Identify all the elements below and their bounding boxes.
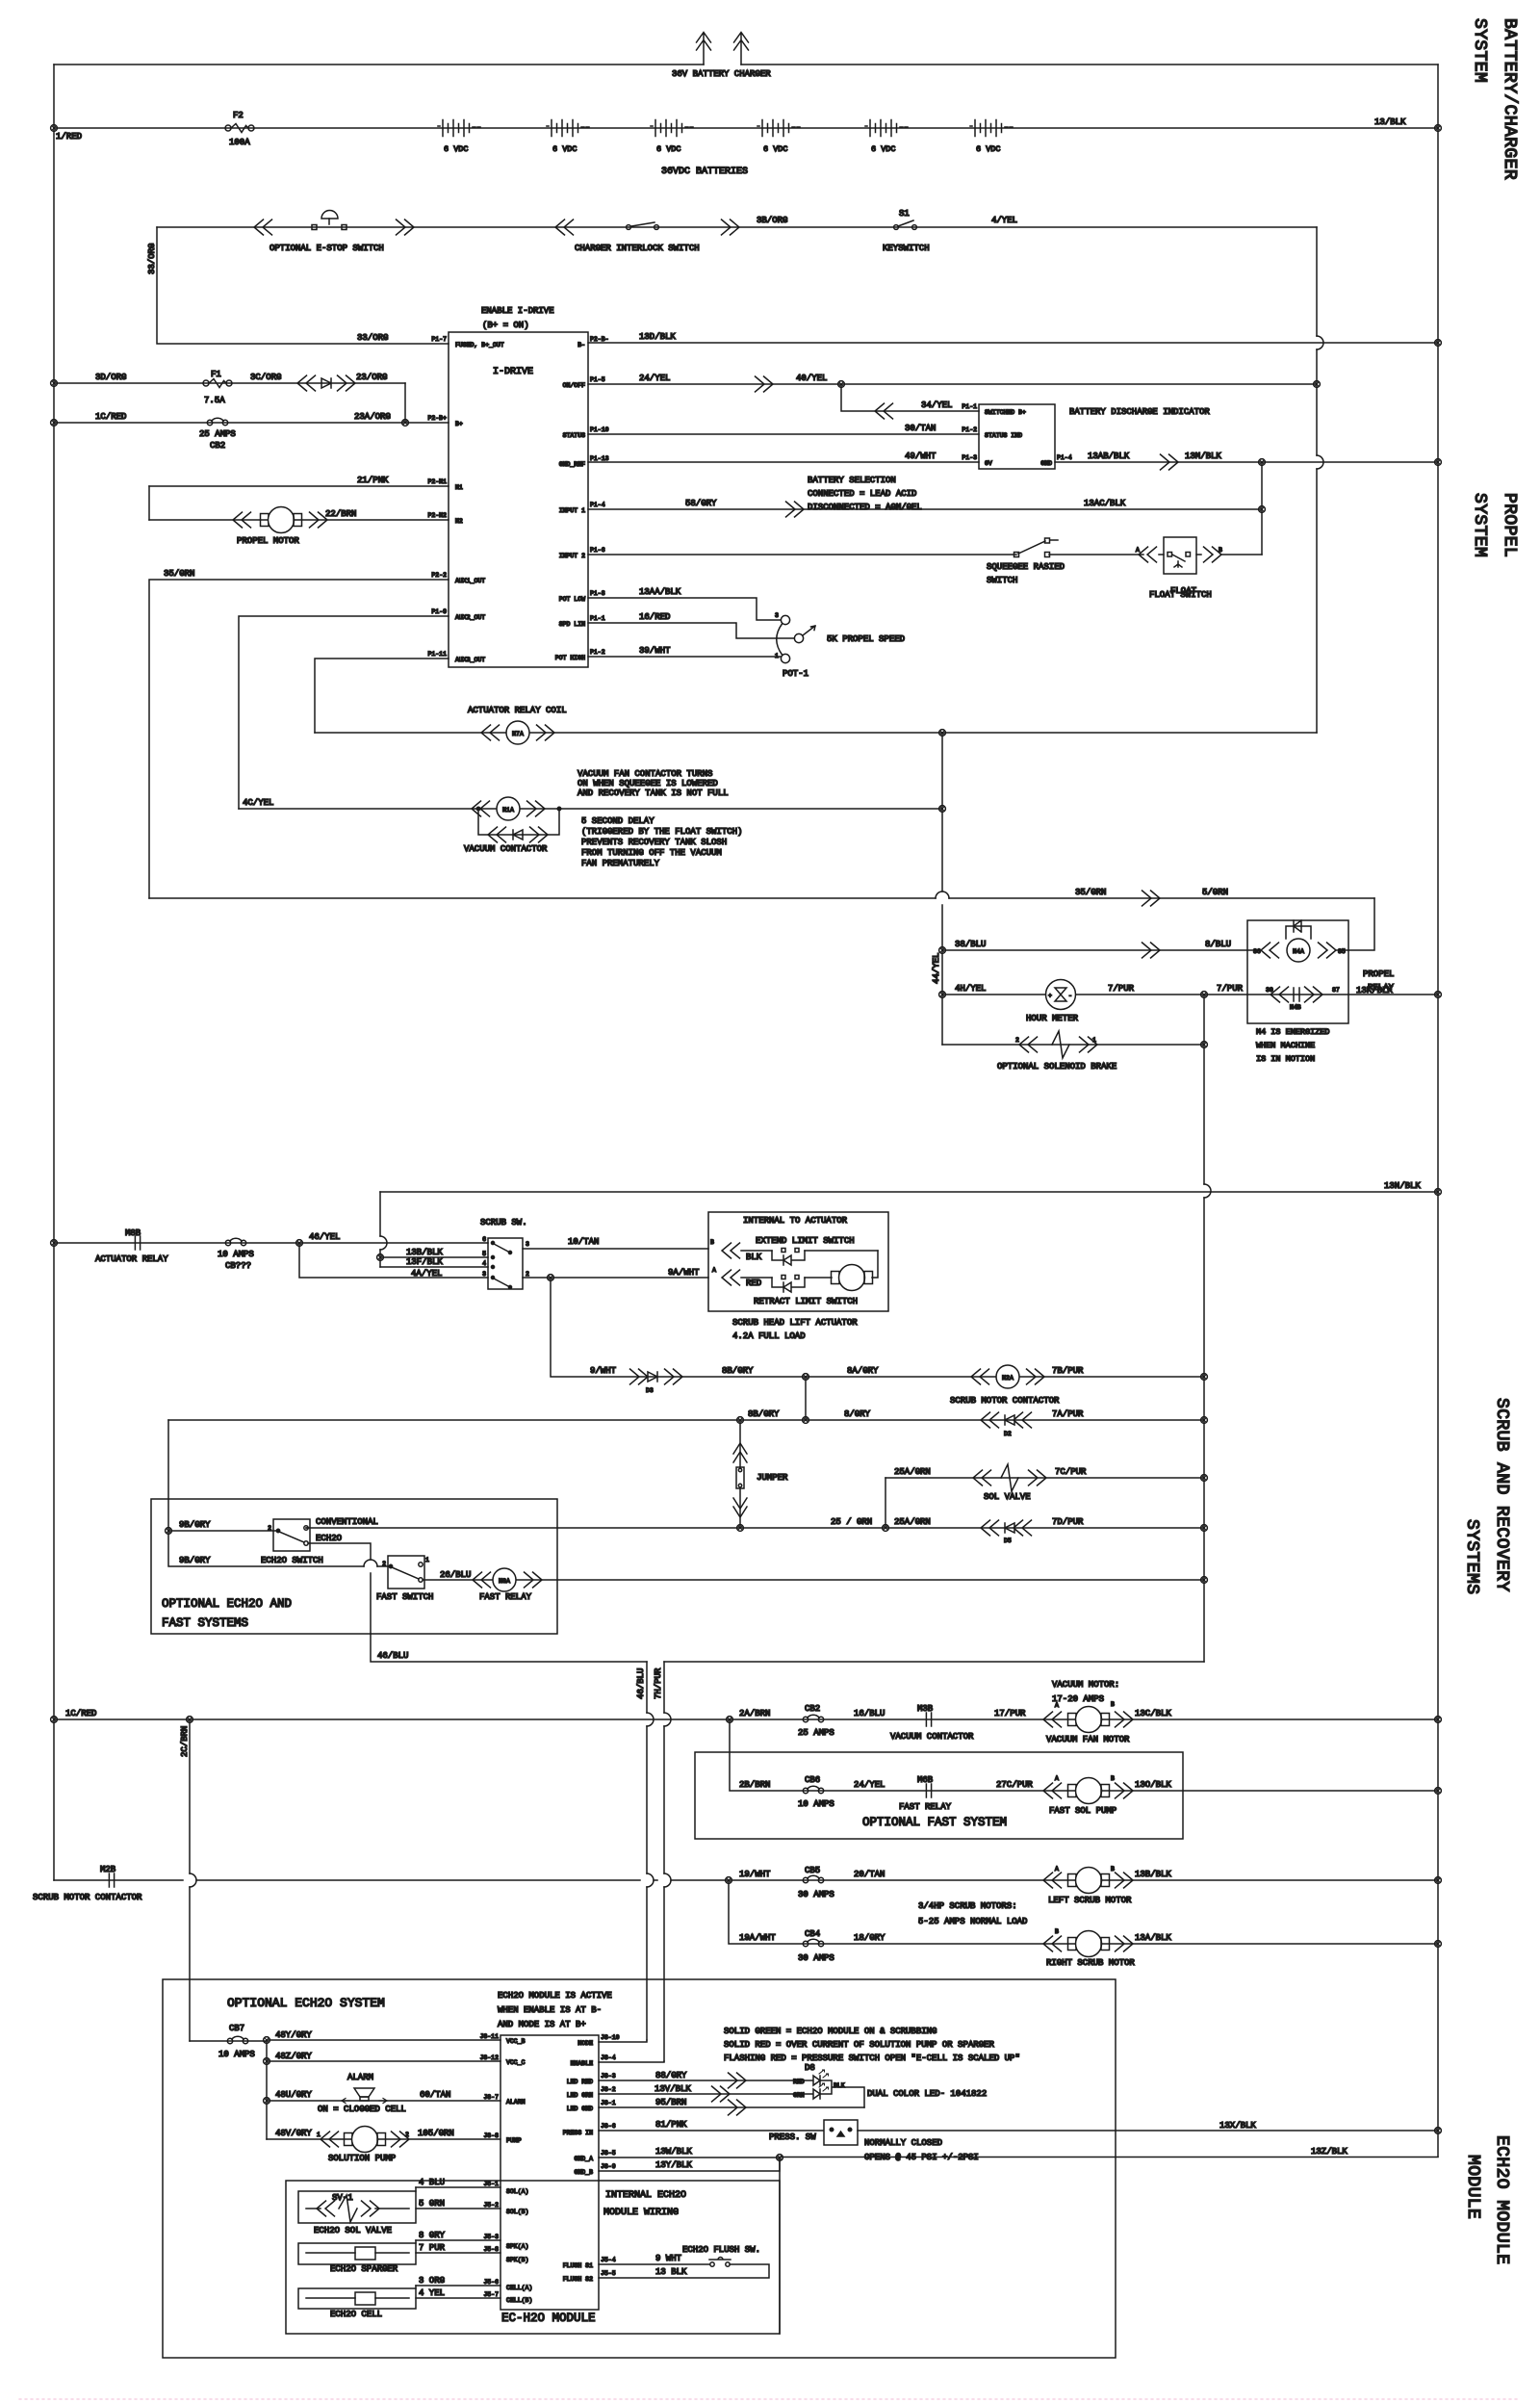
- svg-text:ON/OFF: ON/OFF: [563, 382, 586, 389]
- svg-text:LED GND: LED GND: [567, 2106, 593, 2112]
- svg-text:A: A: [1055, 1702, 1059, 1709]
- junction dot M1A left: [476, 807, 480, 811]
- wire ECH2O contact down to fast switch feed: [308, 1543, 371, 1634]
- svg-text:3: 3: [482, 1271, 486, 1278]
- hop keyswitch vertical over 13AB/BLK: [1317, 455, 1323, 469]
- svg-text:58/GRY: 58/GRY: [685, 499, 717, 508]
- svg-text:23/ORG: 23/ORG: [356, 373, 387, 382]
- svg-text:13AC/BLK: 13AC/BLK: [1084, 499, 1126, 508]
- svg-text:FLUSH S2: FLUSH S2: [563, 2276, 593, 2283]
- svg-text:13F/BLK: 13F/BLK: [406, 1257, 443, 1267]
- svg-text:AND RECOVERY TANK IS NOT FULL: AND RECOVERY TANK IS NOT FULL: [577, 788, 729, 798]
- svg-text:13/BLK: 13/BLK: [1374, 117, 1406, 127]
- svg-text:J8-2: J8-2: [601, 2086, 616, 2093]
- svg-text:33/ORG: 33/ORG: [357, 333, 388, 343]
- wire battery row: [54, 127, 1438, 129]
- svg-text:VACUUM FAN MOTOR: VACUUM FAN MOTOR: [1046, 1735, 1130, 1744]
- connector >> 35/GRN: [1142, 891, 1161, 906]
- sol valve zigzag: [1001, 1464, 1018, 1491]
- svg-text:J8-6: J8-6: [601, 2123, 616, 2130]
- svg-text:AUX2_OUT: AUX2_OUT: [455, 614, 485, 621]
- svg-text:SCRUB HEAD LIFT ACTUATOR: SCRUB HEAD LIFT ACTUATOR: [732, 1318, 858, 1328]
- pink margin dotted line: [19, 2398, 1521, 2400]
- connector << fast pump: [1043, 1783, 1062, 1798]
- svg-text:6 VDC: 6 VDC: [871, 144, 896, 154]
- box OPTIONAL ECH2O AND FAST SYSTEMS: [151, 1499, 557, 1634]
- wire 4H/YEL hour meter row: [942, 994, 1438, 995]
- svg-text:P1-2: P1-2: [962, 426, 977, 433]
- svg-text:ON WHEN SQUEEGEE IS LOWERED: ON WHEN SQUEEGEE IS LOWERED: [577, 779, 718, 788]
- svg-text:STATUS: STATUS: [563, 432, 586, 439]
- svg-text:CELL(A): CELL(A): [506, 2285, 532, 2291]
- node 19/WHT junction: [726, 1877, 732, 1884]
- svg-text:30 AMPS: 30 AMPS: [798, 1953, 834, 1963]
- svg-text:P1-11: P1-11: [427, 651, 447, 658]
- motor SOLUTION PUMP: [345, 2127, 386, 2153]
- wire GND_A row 13W/BLK: [599, 2157, 780, 2158]
- wire AUX3 down to M7A: [315, 659, 449, 733]
- svg-text:KEYSWITCH: KEYSWITCH: [883, 244, 930, 253]
- svg-text:5/GRN: 5/GRN: [1202, 888, 1228, 897]
- node 13N right border: [1435, 1189, 1442, 1196]
- svg-text:4 YEL: 4 YEL: [419, 2288, 445, 2298]
- svg-text:7B/PUR: 7B/PUR: [1052, 1366, 1084, 1376]
- svg-text:OPTIONAL E-STOP SWITCH: OPTIONAL E-STOP SWITCH: [269, 244, 384, 253]
- wire 35/GRN bottom run: [149, 897, 1374, 899]
- hop 35/GRN over 44/YEL: [936, 891, 949, 898]
- relay coil M4A: [1287, 939, 1310, 962]
- svg-text:D5: D5: [1004, 1537, 1012, 1544]
- hop 7H/PUR over M2B row: [664, 1873, 671, 1887]
- node alarm row: [264, 2098, 270, 2105]
- svg-text:60/TAN: 60/TAN: [420, 2090, 450, 2100]
- circuit breaker CB2 vacuum 25 AMPS: [803, 1715, 823, 1721]
- charger arrow 2: [734, 33, 749, 65]
- svg-text:B: B: [1219, 547, 1222, 554]
- svg-text:2A/BRN: 2A/BRN: [739, 1709, 770, 1718]
- svg-text:7C/PUR: 7C/PUR: [1055, 1467, 1087, 1477]
- svg-text:(TRIGGERED BY THE FLOAT SWITCH: (TRIGGERED BY THE FLOAT SWITCH): [581, 827, 742, 837]
- svg-text:J5-4: J5-4: [601, 2257, 616, 2263]
- svg-text:DUAL COLOR LED- 1041822: DUAL COLOR LED- 1041822: [867, 2089, 987, 2099]
- node M8B row left border: [51, 1240, 58, 1247]
- svg-text:13AB/BLK: 13AB/BLK: [1088, 452, 1130, 461]
- wire AUX1 35/GRN left run: [149, 580, 449, 898]
- wire 34/YEL branch: [841, 384, 979, 411]
- node jumper top: [737, 1417, 744, 1424]
- node VCC_C: [264, 2058, 270, 2065]
- svg-text:39/WHT: 39/WHT: [639, 646, 671, 656]
- svg-text:SCRUB MOTOR CONTACTOR: SCRUB MOTOR CONTACTOR: [950, 1396, 1060, 1406]
- svg-text:23A/ORG: 23A/ORG: [354, 412, 391, 422]
- svg-text:SOL(A): SOL(A): [506, 2188, 528, 2195]
- svg-text:35/GRN: 35/GRN: [1075, 888, 1106, 897]
- svg-text:POT HIGH: POT HIGH: [555, 655, 585, 661]
- wire 25A/GRN up branch to sol valve: [885, 1478, 886, 1528]
- svg-text:NORMALLY CLOSED: NORMALLY CLOSED: [864, 2138, 942, 2148]
- svg-text:3C/ORG: 3C/ORG: [250, 373, 281, 382]
- svg-text:MODULE: MODULE: [1463, 2155, 1482, 2219]
- svg-text:M4 IS ENERGIZED: M4 IS ENERGIZED: [1256, 1027, 1330, 1037]
- node press sw right border: [1435, 2128, 1442, 2134]
- wire M1 to M2 left vertical: [148, 486, 150, 520]
- svg-text:40/YEL: 40/YEL: [796, 374, 827, 383]
- contact M3B VACUUM CONTACTOR: [926, 1713, 931, 1726]
- LED common wiring: [820, 2080, 864, 2107]
- svg-text:FUSED, B+_OUT: FUSED, B+_OUT: [455, 342, 504, 349]
- cell element: [306, 2292, 409, 2305]
- connector << 34/YEL: [875, 403, 893, 419]
- node 40/YEL keyswitch vertical: [1314, 381, 1321, 388]
- svg-text:5-25 AMPS NORMAL LOAD: 5-25 AMPS NORMAL LOAD: [918, 1917, 1027, 1926]
- svg-text:8/GRY: 8/GRY: [844, 1409, 871, 1419]
- wire VCC_C row 48Z/GRY: [267, 2060, 500, 2062]
- flyback diode M4A: [1286, 920, 1311, 939]
- svg-text:ECH2O FLUSH SW.: ECH2O FLUSH SW.: [682, 2245, 760, 2255]
- node 2C/BRN branch: [187, 1717, 193, 1723]
- svg-text:13W/BLK: 13W/BLK: [655, 2147, 692, 2157]
- node 40/YEL junction: [838, 381, 845, 388]
- svg-text:ON = CLOGGED CELL: ON = CLOGGED CELL: [318, 2105, 406, 2114]
- svg-text:J5-7: J5-7: [483, 2291, 499, 2298]
- wire 38/BLU row: [942, 949, 1260, 951]
- svg-text:GND_B: GND_B: [574, 2169, 593, 2176]
- svg-text:ECH2O SPARGER: ECH2O SPARGER: [330, 2264, 398, 2274]
- svg-text:SYSTEM: SYSTEM: [1470, 493, 1489, 557]
- connector << diode >> bypass: [488, 827, 506, 842]
- svg-text:1C/RED: 1C/RED: [65, 1709, 96, 1718]
- hop 46/BLU over 1C/RED: [647, 1713, 654, 1726]
- svg-text:ECH2O CELL: ECH2O CELL: [330, 2310, 382, 2319]
- motor RIGHT SCRUB MOTOR: [1068, 1931, 1110, 1957]
- svg-text:JUMPER: JUMPER: [757, 1473, 788, 1483]
- svg-text:SCRUB SW.: SCRUB SW.: [480, 1218, 527, 1227]
- wire 1C/RED row to B+: [54, 422, 449, 424]
- svg-text:FAST SOL PUMP: FAST SOL PUMP: [1049, 1806, 1116, 1816]
- svg-text:INPUT 2: INPUT 2: [559, 553, 585, 559]
- svg-text:13V/BLK: 13V/BLK: [654, 2084, 691, 2094]
- connector << sol valve: [973, 1470, 991, 1486]
- wire 5/GRN down to M4A: [1337, 898, 1374, 950]
- circuit breaker 10 AMPS CB???: [225, 1238, 245, 1245]
- node 13D/BLK right: [1435, 340, 1442, 347]
- node 9A/WHT branch: [548, 1275, 554, 1281]
- node battery row left: [51, 125, 58, 132]
- connector >> 24/YEL: [756, 376, 774, 392]
- hop keyswitch vertical over 13D/BLK: [1317, 336, 1323, 349]
- svg-text:A: A: [712, 1267, 716, 1274]
- connector << actuator A: [722, 1270, 740, 1285]
- relay coil M8A FAST RELAY: [493, 1568, 516, 1591]
- svg-text:81/PNK: 81/PNK: [655, 2120, 687, 2130]
- node 2A/BRN branch: [727, 1717, 733, 1723]
- hop 7/PUR vertical over 13N: [1204, 1184, 1211, 1198]
- hop ground vertical over 46/YEL: [380, 1236, 387, 1250]
- wire cell link: [415, 2286, 417, 2288]
- svg-text:VACUUM FAN CONTACTOR TURNS: VACUUM FAN CONTACTOR TURNS: [577, 769, 712, 779]
- svg-text:ALARM: ALARM: [506, 2099, 526, 2106]
- wire squeegee INPUT2 row: [588, 554, 1016, 556]
- wire 13D/BLK row: [588, 342, 1438, 344]
- connector << M4A: [1261, 943, 1279, 958]
- svg-text:P2-M1: P2-M1: [427, 478, 447, 485]
- svg-text:(B+ = ON): (B+ = ON): [482, 321, 529, 330]
- svg-text:M6B: M6B: [917, 1775, 934, 1785]
- svg-text:25A/GRN: 25A/GRN: [894, 1467, 931, 1477]
- svg-text:7 PUR: 7 PUR: [419, 2243, 446, 2253]
- circuit breaker CB6 10 AMPS: [803, 1786, 823, 1793]
- svg-text:SPD LIM: SPD LIM: [559, 621, 585, 628]
- svg-text:ACTUATOR RELAY COIL: ACTUATOR RELAY COIL: [468, 706, 567, 715]
- svg-text:J8-12: J8-12: [479, 2054, 499, 2061]
- wire sol valve link: [415, 2187, 417, 2191]
- circuit breaker CB5 30 AMPS: [803, 1875, 823, 1882]
- svg-text:48Y/GRY: 48Y/GRY: [275, 2030, 312, 2040]
- svg-text:4 BLU: 4 BLU: [419, 2178, 445, 2187]
- flush switch: [709, 2258, 731, 2267]
- svg-text:J8-11: J8-11: [479, 2033, 499, 2040]
- svg-text:5: 5: [482, 1251, 486, 1257]
- wire M8B actuator relay row 46/YEL: [54, 1242, 488, 1244]
- svg-text:D3: D3: [646, 1387, 654, 1394]
- svg-text:1: 1: [1092, 1037, 1096, 1044]
- wire LED RED row 88/GRY: [599, 2080, 813, 2081]
- connector >> fast pump: [1116, 1783, 1134, 1798]
- solenoid brake zigzag: [1052, 1031, 1069, 1058]
- svg-text:BLK: BLK: [746, 1253, 762, 1262]
- node 38/BLU junction: [939, 947, 946, 954]
- svg-text:OPTIONAL SOLENOID BRAKE: OPTIONAL SOLENOID BRAKE: [997, 1062, 1116, 1072]
- node D5 right: [1201, 1525, 1208, 1532]
- hop 2C/BRN over M2B row: [190, 1873, 196, 1887]
- svg-text:M4B: M4B: [1290, 1004, 1301, 1011]
- svg-text:9A/WHT: 9A/WHT: [668, 1268, 700, 1278]
- svg-text:STATUS IND: STATUS IND: [985, 432, 1022, 439]
- svg-text:25A/GRN: 25A/GRN: [894, 1517, 931, 1527]
- svg-text:20/TAN: 20/TAN: [854, 1870, 885, 1879]
- svg-text:2: 2: [526, 1271, 529, 1278]
- svg-text:D2: D2: [1004, 1431, 1012, 1437]
- svg-text:33/ORG: 33/ORG: [147, 244, 157, 274]
- svg-text:J5-8: J5-8: [483, 2246, 499, 2253]
- wire ground stub down right edge: [779, 2158, 781, 2334]
- fuse F2: [225, 124, 254, 133]
- connector >> pump: [392, 2132, 410, 2147]
- svg-text:CONVENTIONAL: CONVENTIONAL: [316, 1517, 378, 1527]
- box EC-H2O MODULE: [500, 2035, 599, 2310]
- svg-text:J5-2: J5-2: [483, 2202, 499, 2209]
- wire flush loop: [599, 2264, 769, 2278]
- hop 7H/PUR over 1C/RED: [664, 1713, 671, 1726]
- relay coil M7A: [506, 721, 529, 744]
- connector >> 13AB: [1161, 454, 1179, 470]
- svg-text:VCC_B: VCC_B: [506, 2038, 526, 2045]
- svg-text:27C/PUR: 27C/PUR: [996, 1780, 1033, 1790]
- svg-text:P2-B-: P2-B-: [590, 336, 609, 343]
- connector >> right scrub motor: [1116, 1936, 1134, 1951]
- svg-text:CB7: CB7: [229, 2024, 244, 2033]
- connector >> brake: [1080, 1037, 1098, 1052]
- wire 39/WHT POT HIGH: [588, 656, 781, 658]
- svg-text:P1-4: P1-4: [590, 502, 605, 508]
- svg-text:BLK: BLK: [834, 2082, 845, 2089]
- svg-text:J8-10: J8-10: [601, 2034, 620, 2041]
- svg-text:P1-8: P1-8: [590, 590, 605, 597]
- motor scrub head lift actuator: [832, 1265, 873, 1291]
- svg-text:J8-4: J8-4: [601, 2054, 616, 2061]
- node 4H/YEL left: [939, 992, 946, 998]
- svg-text:M2: M2: [455, 518, 463, 525]
- svg-text:ENABLE I-DRIVE: ENABLE I-DRIVE: [481, 306, 554, 316]
- svg-text:FLASHING RED = PRESSURE SWITCH: FLASHING RED = PRESSURE SWITCH OPEN "E-C…: [724, 2054, 1020, 2063]
- svg-text:35/GRN: 35/GRN: [164, 569, 194, 579]
- wire 16/RED SPD LIM: [588, 623, 794, 638]
- wire ALARM row: [267, 2100, 500, 2102]
- svg-text:5 SECOND DELAY: 5 SECOND DELAY: [581, 816, 654, 826]
- wire 24/YEL ON/OFF row: [588, 383, 1317, 385]
- node battery row right: [1435, 125, 1442, 132]
- pressure switch box: [824, 2120, 858, 2145]
- wire 1C/RED lower row / vacuum motor row: [54, 1718, 1438, 1720]
- connector << D2 right: [1014, 1412, 1032, 1428]
- svg-text:MODE: MODE: [577, 2040, 593, 2047]
- jumper component: [733, 1420, 747, 1528]
- svg-text:GND: GND: [1040, 460, 1052, 467]
- hop 46/BLU over M2B row: [647, 1873, 654, 1887]
- connector << M1A: [472, 801, 490, 816]
- relay coil M1A VACUUM CONTACTOR: [497, 797, 520, 820]
- svg-text:VACUUM CONTACTOR: VACUUM CONTACTOR: [890, 1732, 974, 1742]
- svg-text:5K PROPEL SPEED: 5K PROPEL SPEED: [827, 634, 905, 644]
- node D2 row junction left: [803, 1417, 809, 1424]
- wire SPK(B) row 7 PUR: [416, 2252, 500, 2254]
- svg-text:J8-7: J8-7: [483, 2094, 499, 2101]
- svg-text:A: A: [1136, 547, 1140, 554]
- wire 13N down to scrub switch grounds: [379, 1192, 381, 1267]
- svg-text:88/GRY: 88/GRY: [655, 2071, 687, 2080]
- wire 13B/BLK row: [380, 1256, 488, 1258]
- svg-text:B+: B+: [455, 421, 463, 427]
- svg-text:6 VDC: 6 VDC: [656, 144, 681, 154]
- fuse F1 7.5A: [203, 379, 232, 388]
- connector >> charger interlock: [722, 220, 740, 235]
- wire 3D/ORG row: [54, 382, 405, 384]
- wire 13N/BLK row: [380, 1191, 1438, 1193]
- svg-text:25 / GRN: 25 / GRN: [831, 1517, 872, 1527]
- svg-text:13AA/BLK: 13AA/BLK: [639, 587, 681, 597]
- wire AUX2 down to 4C/YEL: [239, 616, 449, 809]
- wire 13AA/BLK POT LOW: [588, 598, 781, 620]
- svg-text:3D/ORG: 3D/ORG: [95, 373, 126, 382]
- node M1A row junction: [939, 806, 946, 813]
- motor M - PROPEL MOTOR: [261, 507, 302, 533]
- node 25A junction: [883, 1525, 889, 1532]
- svg-text:38/BLU: 38/BLU: [955, 940, 986, 949]
- svg-text:P1-6: P1-6: [590, 547, 605, 554]
- node jumper bottom: [737, 1525, 744, 1532]
- wire LED GND row 95/BRN: [599, 2106, 864, 2108]
- wire 9A/WHT row: [523, 1277, 708, 1279]
- node M7A row junction 44/YEL top: [939, 730, 946, 736]
- connector << D5 right: [1014, 1520, 1032, 1536]
- svg-text:13M/BLK: 13M/BLK: [1185, 452, 1221, 461]
- svg-text:ENABLE: ENABLE: [571, 2060, 594, 2067]
- svg-text:P1-13: P1-13: [590, 455, 609, 462]
- svg-text:86: 86: [1253, 948, 1261, 955]
- svg-text:P1-2: P1-2: [590, 649, 605, 656]
- svg-text:INTERNAL ECH2O: INTERNAL ECH2O: [605, 2190, 686, 2201]
- connector >> 58/GRY: [786, 502, 805, 517]
- e-stop switch: [312, 211, 346, 230]
- wire junction vertical 8A to D2: [805, 1377, 807, 1420]
- node 7/PUR junction: [1201, 992, 1208, 998]
- wire SPK(A) row 8 GRY: [416, 2239, 500, 2241]
- svg-text:J8-1: J8-1: [601, 2100, 616, 2106]
- svg-text:105/GRN: 105/GRN: [418, 2129, 454, 2138]
- svg-text:P1-7: P1-7: [431, 336, 447, 343]
- wire MODE row to 46/BLU: [599, 2040, 647, 2042]
- svg-text:FAN PREMATURELY: FAN PREMATURELY: [581, 859, 660, 868]
- svg-text:4.2A FULL LOAD: 4.2A FULL LOAD: [732, 1331, 806, 1341]
- svg-text:2: 2: [268, 1525, 271, 1532]
- alarm speaker: [342, 2088, 387, 2104]
- svg-text:M8A: M8A: [499, 1578, 510, 1585]
- svg-text:M4A: M4A: [1293, 948, 1304, 955]
- connector << pump: [321, 2132, 339, 2147]
- svg-text:POT-1: POT-1: [783, 669, 808, 679]
- connector << propel motor: [233, 512, 251, 528]
- svg-text:GND_REF: GND_REF: [559, 461, 585, 468]
- svg-text:ACTUATOR RELAY: ACTUATOR RELAY: [95, 1254, 168, 1264]
- wire 9B/GRY lower: [168, 1531, 391, 1566]
- connector >> LED red row: [729, 2073, 747, 2088]
- svg-text:GND_A: GND_A: [574, 2156, 593, 2162]
- wire float B to 13AC vertical: [1221, 554, 1262, 556]
- svg-text:30/TAN: 30/TAN: [905, 424, 936, 433]
- svg-text:16/RED: 16/RED: [639, 612, 670, 622]
- contact M4B: [1270, 987, 1322, 1002]
- node M2A right: [1201, 1374, 1208, 1381]
- svg-text:6 VDC: 6 VDC: [552, 144, 577, 154]
- svg-text:LEFT SCRUB MOTOR: LEFT SCRUB MOTOR: [1048, 1896, 1132, 1905]
- svg-text:AND MODE IS AT B+: AND MODE IS AT B+: [498, 2020, 586, 2029]
- wire D5 row: [885, 1527, 1204, 1529]
- wire 13Z/BLK row: [780, 2157, 1438, 2159]
- wire D2 row left drop to ECH2O box: [167, 1420, 169, 1531]
- svg-text:PROPEL MOTOR: PROPEL MOTOR: [237, 536, 299, 546]
- svg-text:1/RED: 1/RED: [56, 132, 82, 142]
- switch FAST SWITCH: [382, 1556, 429, 1589]
- svg-text:EC-H2O MODULE: EC-H2O MODULE: [501, 2312, 596, 2325]
- svg-text:J8-9: J8-9: [601, 2163, 616, 2170]
- connector << M2A: [971, 1369, 989, 1384]
- svg-text:FAST RELAY: FAST RELAY: [899, 1802, 952, 1812]
- svg-text:2B/BRN: 2B/BRN: [739, 1780, 770, 1790]
- svg-text:P1-1: P1-1: [590, 615, 605, 622]
- svg-text:VACUUM CONTACTOR: VACUUM CONTACTOR: [464, 844, 548, 854]
- node 1C/RED lower left: [51, 1717, 58, 1723]
- connector >> D3 right: [665, 1369, 683, 1384]
- contact M6B FAST RELAY: [926, 1784, 931, 1797]
- svg-text:LED GRN: LED GRN: [567, 2092, 593, 2099]
- svg-text:8 GRY: 8 GRY: [419, 2231, 446, 2240]
- svg-text:4: 4: [482, 1260, 486, 1267]
- svg-text:FLOAT SWITCH: FLOAT SWITCH: [1149, 590, 1212, 600]
- svg-text:19/WHT: 19/WHT: [739, 1870, 771, 1879]
- wire PUMP row: [267, 2138, 500, 2140]
- svg-text:5 GRN: 5 GRN: [419, 2199, 445, 2209]
- svg-text:A: A: [1055, 1775, 1059, 1782]
